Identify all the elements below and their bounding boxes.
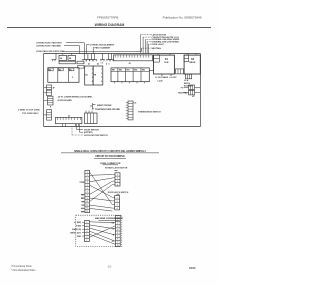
svg-text:2: 2: [92, 73, 93, 75]
label thermostat switch: [138, 111, 161, 114]
svg-text:BAKE (R): BAKE (R): [72, 228, 81, 231]
svg-text:BROIL: BROIL: [184, 83, 191, 85]
label broil element: [184, 79, 194, 87]
harness2 left labels: [70, 222, 84, 238]
label convection fan high with leader: [36, 42, 84, 54]
fuse F1: [181, 85, 201, 90]
svg-text:Publication No. 5995573949: Publication No. 5995573949: [163, 15, 202, 19]
relay RL1: [85, 66, 93, 85]
pin labels above relays: [88, 62, 110, 65]
svg-text:BROIL (GY): BROIL (GY): [70, 233, 81, 235]
svg-text:FAN / ELEMENT: FAN / ELEMENT: [95, 46, 112, 49]
connector hook pair 5: [106, 54, 114, 62]
wire bottom run: [44, 126, 201, 128]
harness1 crossing wires: [90, 172, 113, 211]
svg-text:3: 3: [117, 205, 118, 207]
svg-text:1 2: 1 2: [101, 62, 103, 64]
svg-text:1: 1: [117, 197, 118, 199]
connector block pair under bus: [59, 54, 84, 64]
label convection element with leader: [86, 45, 115, 54]
svg-text:b: b: [109, 63, 110, 65]
svg-text:# WIRE TO TOP OVEN: # WIRE TO TOP OVEN: [18, 110, 40, 112]
pin stubs under terminal block J1: [115, 82, 145, 84]
harness2 dashed enclosure: [76, 215, 122, 246]
connector hook 1 under bus: [52, 54, 57, 62]
harness1 connector door switch strip: [112, 196, 119, 211]
label neutral with leader: [142, 47, 162, 50]
label latch motor with leader: [141, 33, 167, 53]
svg-text:11: 11: [86, 204, 88, 206]
harness1 label rotary latch motor: [105, 167, 128, 171]
harness1 label L1: [79, 182, 85, 184]
label 4P right: [192, 95, 195, 98]
connector J6 thermal switch strip: [126, 101, 137, 120]
meat probe labels with bracket: [90, 103, 120, 111]
relay RL2: [93, 66, 103, 85]
svg-text:TOP OVEN ONLY: TOP OVEN ONLY: [22, 113, 39, 115]
svg-text:8: 8: [117, 239, 118, 241]
connector J4 strip: [44, 96, 53, 108]
svg-text:L2-OUT: L2-OUT: [170, 77, 178, 79]
svg-text:NEUTRAL: NEUTRAL: [152, 47, 162, 50]
connector J3 strip: [56, 116, 82, 124]
connector between relays: [176, 69, 184, 74]
page title WIRING DIAGRAM: [95, 23, 125, 27]
svg-text:DOOR BOARD: DOOR BOARD: [58, 99, 73, 102]
svg-text:1: 1: [117, 217, 118, 219]
wire L1 top bus: [44, 53, 201, 55]
label latch motor switch with leader: [72, 127, 108, 137]
svg-text:13: 13: [86, 211, 88, 213]
svg-text:OVEN LIGHT: OVEN LIGHT: [152, 44, 165, 46]
svg-text:ROTARY LATCH MOTOR: ROTARY LATCH MOTOR: [105, 167, 128, 170]
harness2 wire color labels: [112, 222, 115, 243]
label J4 to lower interlock board: [58, 96, 93, 103]
svg-text:CONVECTION / FAN MED: CONVECTION / FAN MED: [36, 45, 61, 48]
svg-text:K5: K5: [59, 69, 61, 71]
terminal block J1: [111, 68, 149, 82]
footer functional parts note: [11, 265, 36, 272]
svg-text:CONVECTION / FAN HIGH: CONVECTION / FAN HIGH: [36, 42, 62, 45]
svg-text:TEMPERATURE PROBE: TEMPERATURE PROBE: [95, 108, 120, 111]
label oven/brl fan low speed with leader: [147, 41, 179, 54]
svg-text:L2-A: L2-A: [184, 79, 189, 82]
svg-text:J6: J6: [134, 102, 136, 104]
connector 4P on left wire: [44, 85, 56, 90]
latch motor switch block: [85, 111, 98, 124]
svg-text:L1-OUT BAKE: L1-OUT BAKE: [155, 76, 169, 79]
svg-text:03/15: 03/15: [189, 266, 196, 270]
svg-text:CONV FAN LOW & MFG USE: CONV FAN LOW & MFG USE: [36, 50, 64, 53]
svg-text:MEAT PROBE: MEAT PROBE: [97, 104, 112, 107]
svg-text:J4 TO LOWER INTERLOCK BOARD: J4 TO LOWER INTERLOCK BOARD: [58, 96, 93, 99]
footer date code: [189, 266, 196, 270]
svg-text:3: 3: [92, 77, 93, 79]
harness2 connector right strip: [115, 216, 120, 247]
svg-text:# Functional Parts: # Functional Parts: [12, 265, 33, 268]
svg-text:9: 9: [117, 242, 118, 244]
harness2 heading machine compartment: [95, 217, 124, 220]
label conv fan low mfg use: [36, 50, 64, 53]
svg-text:THERMOSTAT SWITCH: THERMOSTAT SWITCH: [138, 111, 161, 114]
svg-text:L2-IN: L2-IN: [158, 81, 163, 83]
svg-text:CIRCUIT DU FOUR SIMPLE: CIRCUIT DU FOUR SIMPLE: [95, 156, 125, 158]
svg-text:RB3: RB3: [127, 70, 130, 72]
svg-text:* Non-Illustrated Parts: * Non-Illustrated Parts: [11, 269, 36, 272]
svg-text:GND: GND: [77, 236, 82, 238]
connector hook pair 3: [89, 54, 97, 62]
svg-text:SINGLE WALL OVEN CIRCUIT // CI: SINGLE WALL OVEN CIRCUIT // CIRCUITO DEL…: [74, 150, 146, 153]
publication number header: [163, 15, 202, 19]
connector under K3: [185, 74, 191, 79]
svg-text:N (W): N (W): [76, 226, 81, 228]
svg-text:6: 6: [117, 232, 118, 234]
label fan element with leader: [93, 46, 111, 53]
wire drops from J3: [63, 124, 79, 127]
label L1-out bake terminals: [155, 76, 177, 83]
svg-text:WIRING DIAGRAM: WIRING DIAGRAM: [95, 23, 125, 27]
relay board three-cell block: [48, 68, 79, 83]
svg-text:RB1: RB1: [112, 70, 115, 72]
connector P2 on left wire: [44, 90, 52, 95]
connector hook pair 2: [82, 54, 90, 62]
pin box left of relay RL1: [78, 66, 85, 69]
neutral terminal: [178, 90, 200, 95]
harness1 label door latch switch: [108, 191, 129, 194]
label oven light with leader: [148, 44, 164, 54]
section title line 2: [94, 156, 126, 158]
svg-text:DOOR LATCH SWITCH: DOOR LATCH SWITCH: [108, 191, 129, 194]
svg-text:2: 2: [117, 201, 118, 203]
svg-text:(UPPER): (UPPER): [84, 132, 93, 134]
relay K1 DLB: [154, 54, 175, 77]
connector P3 on left wire: [44, 110, 52, 120]
svg-text:NEUTRAL: NEUTRAL: [178, 91, 188, 94]
svg-text:DLB: DLB: [164, 62, 169, 64]
harness1 heading oven connector: [100, 163, 121, 165]
svg-text:FPEW3077RFB: FPEW3077RFB: [97, 15, 118, 19]
svg-text:BROIL: BROIL: [189, 62, 196, 64]
svg-text:L1 (BK): L1 (BK): [74, 222, 81, 224]
svg-text:7: 7: [117, 236, 118, 238]
svg-text:10: 10: [117, 245, 119, 247]
harness2 connector left strip: [85, 221, 90, 242]
wire neutral horizontal run: [63, 48, 142, 51]
connector hook 4: [100, 54, 105, 65]
wire stub J1 to K1: [149, 70, 153, 72]
footer page number: [107, 265, 111, 268]
header rule: [7, 27, 211, 29]
harness1 wire color labels: [81, 194, 85, 213]
svg-text:5: 5: [117, 229, 118, 231]
relay K3 broil: [184, 54, 200, 75]
svg-text:1: 1: [92, 69, 93, 71]
product number header: [97, 15, 118, 19]
label convection fan tri 1 lvl with leader: [143, 36, 180, 54]
label upper: [80, 124, 93, 135]
label door switch with leader: [77, 124, 100, 132]
harness1 connector P1 strip: [85, 170, 90, 213]
svg-text:12: 12: [86, 208, 88, 210]
svg-text:CONVECTION ELEMENT: CONVECTION ELEMENT: [90, 45, 115, 47]
connector J2 comb: [114, 55, 153, 65]
label oven/brl fan high speed with leader: [146, 38, 180, 53]
svg-text:10: 10: [86, 201, 88, 203]
label wire to top oven: [18, 110, 40, 115]
svg-text:-15-: -15-: [107, 265, 111, 268]
wire right side L2 run: [199, 54, 201, 127]
svg-text:K6: K6: [70, 69, 72, 71]
harness2 crossing wires: [89, 222, 115, 245]
svg-text:RB5: RB5: [142, 70, 145, 72]
svg-text:LATCH MOTOR SWITCH: LATCH MOTOR SWITCH: [84, 134, 108, 137]
svg-text:2: 2: [117, 220, 118, 222]
svg-text:3: 3: [117, 223, 118, 225]
harness1 connector latch motor strip: [113, 173, 120, 186]
svg-text:DOOR SWITCH: DOOR SWITCH: [84, 129, 99, 131]
svg-text:RB2: RB2: [119, 70, 122, 72]
wire left side run: [43, 54, 45, 127]
label convection fan low with leader: [36, 45, 80, 54]
section title line 1: [61, 150, 159, 153]
